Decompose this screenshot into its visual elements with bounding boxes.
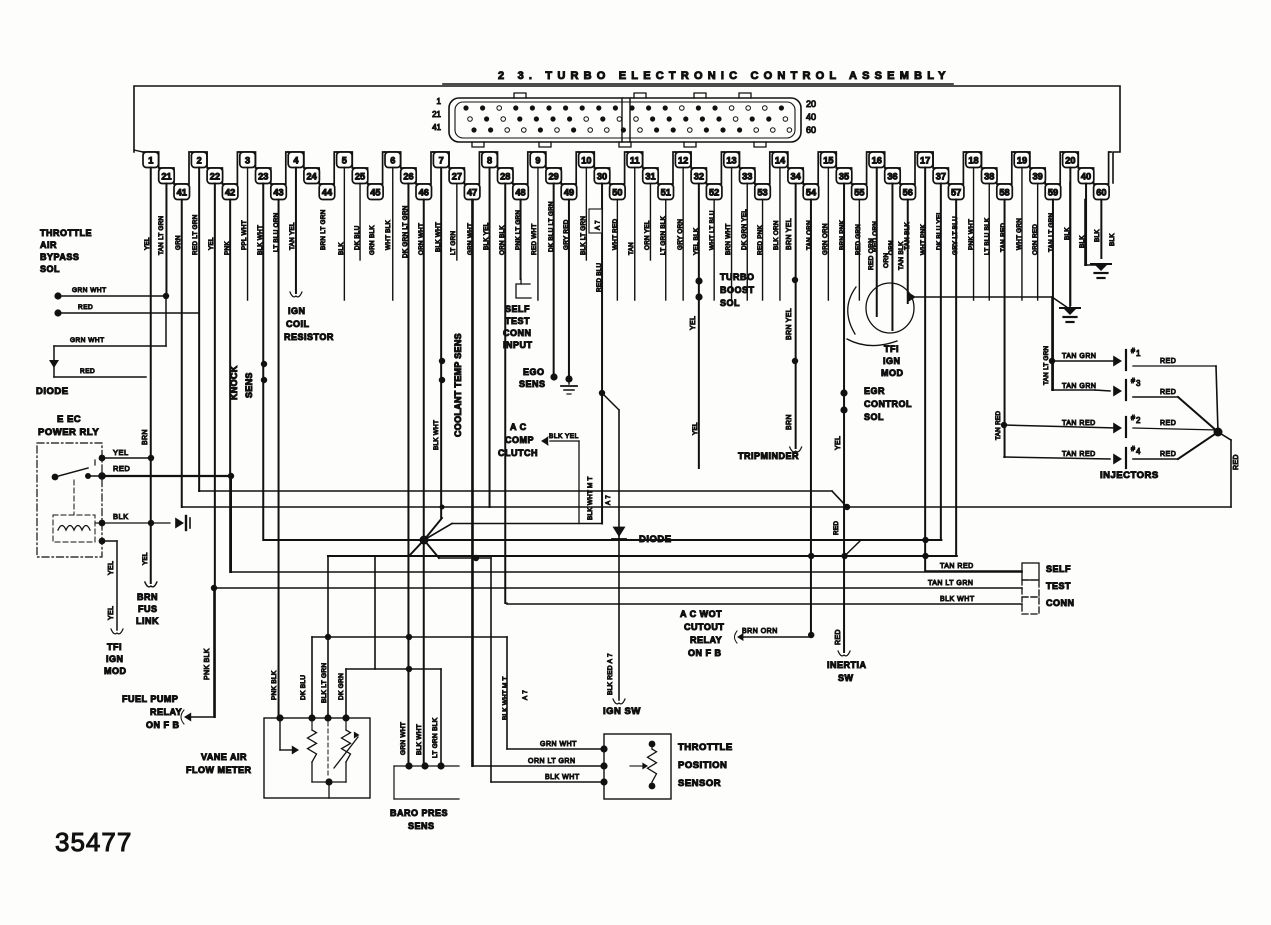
svg-text:YEL: YEL [692, 422, 699, 435]
svg-text:FLOW METER: FLOW METER [186, 765, 252, 775]
svg-text:TAN LT GRN: TAN LT GRN [1043, 345, 1050, 385]
svg-text:TAN RED: TAN RED [1062, 451, 1096, 458]
svg-text:BLK WHT: BLK WHT [435, 222, 442, 252]
svg-text:48: 48 [515, 188, 525, 198]
svg-text:2 3. TURBO ELECTRONIC CONTROL: 2 3. TURBO ELECTRONIC CONTROL ASSEMBLY [498, 70, 951, 82]
svg-text:1: 1 [437, 97, 442, 106]
svg-text:30: 30 [597, 172, 607, 182]
svg-text:TAN LT GRN: TAN LT GRN [1048, 212, 1055, 252]
svg-text:23: 23 [258, 172, 268, 182]
svg-text:BLK: BLK [1064, 227, 1071, 240]
svg-text:18: 18 [968, 156, 978, 166]
svg-text:DK GRN YEL: DK GRN YEL [741, 209, 748, 250]
svg-text:BLK RED A 7: BLK RED A 7 [607, 653, 614, 695]
svg-text:1: 1 [1136, 349, 1141, 358]
svg-text:IGN: IGN [288, 306, 306, 316]
svg-text:MOD: MOD [104, 666, 127, 676]
svg-text:24: 24 [307, 172, 318, 182]
svg-text:IGN: IGN [106, 654, 124, 664]
svg-text:BRN: BRN [786, 414, 793, 430]
svg-text:BLK: BLK [1079, 235, 1086, 248]
svg-text:WHT LT BLU: WHT LT BLU [709, 210, 716, 250]
svg-text:33: 33 [742, 172, 752, 182]
svg-text:BRN: BRN [137, 592, 158, 602]
svg-text:20: 20 [1065, 156, 1075, 166]
svg-text:A 7: A 7 [595, 220, 602, 230]
svg-text:47: 47 [467, 188, 477, 198]
svg-text:ON F B: ON F B [688, 648, 722, 658]
svg-text:GRY RED: GRY RED [563, 219, 570, 250]
svg-text:4: 4 [293, 156, 299, 166]
svg-text:41: 41 [177, 188, 187, 198]
svg-text:MOD: MOD [881, 368, 904, 378]
svg-text:TAN ORN: TAN ORN [806, 220, 813, 250]
svg-text:38: 38 [984, 172, 994, 182]
svg-text:45: 45 [370, 188, 380, 198]
svg-text:3: 3 [245, 156, 250, 166]
svg-text:THROTTLE: THROTTLE [678, 742, 733, 753]
svg-text:20: 20 [806, 99, 816, 109]
svg-text:YEL: YEL [108, 606, 115, 620]
svg-text:17: 17 [920, 156, 930, 166]
svg-text:RED: RED [78, 304, 93, 311]
svg-text:RED PNK: RED PNK [757, 224, 764, 255]
svg-text:SOL: SOL [40, 264, 60, 274]
svg-text:YEL: YEL [144, 237, 151, 250]
svg-text:EGR: EGR [864, 386, 885, 396]
svg-text:ON F B: ON F B [146, 720, 180, 730]
svg-text:22: 22 [210, 172, 220, 182]
svg-text:TRIPMINDER: TRIPMINDER [738, 451, 799, 461]
svg-text:ORN LT GRN: ORN LT GRN [528, 758, 576, 765]
svg-text:DK BLU: DK BLU [354, 225, 361, 250]
svg-text:21: 21 [432, 110, 441, 119]
svg-text:RED: RED [1160, 389, 1176, 396]
svg-text:9: 9 [535, 156, 540, 166]
svg-text:TAN GRN: TAN GRN [1062, 353, 1096, 360]
svg-text:PNK WHT: PNK WHT [968, 219, 975, 250]
svg-text:EGO: EGO [523, 367, 545, 377]
svg-text:BLK YEL: BLK YEL [483, 222, 490, 250]
svg-text:CUTOUT: CUTOUT [684, 622, 724, 632]
svg-text:IGN SW: IGN SW [603, 706, 641, 717]
svg-text:TAN YEL: TAN YEL [289, 222, 296, 250]
svg-text:25: 25 [355, 172, 365, 182]
svg-text:GRY ORN: GRY ORN [677, 219, 684, 250]
svg-text:GRN WHT: GRN WHT [72, 287, 107, 294]
svg-text:CONTROL: CONTROL [864, 399, 912, 409]
svg-text:BLK: BLK [338, 242, 345, 255]
svg-text:37: 37 [936, 172, 946, 182]
svg-text:SOL: SOL [720, 298, 740, 308]
svg-text:TEST: TEST [1046, 581, 1071, 591]
svg-text:WHT BLK: WHT BLK [385, 220, 392, 250]
svg-text:35: 35 [839, 172, 849, 182]
svg-text:BLK: BLK [113, 512, 129, 521]
svg-text:BLK LT GRN: BLK LT GRN [321, 663, 328, 703]
svg-text:#: # [1131, 446, 1135, 453]
svg-text:FUS: FUS [138, 604, 158, 614]
svg-text:44: 44 [322, 188, 333, 198]
svg-text:TAN RED: TAN RED [1000, 223, 1007, 252]
svg-text:YEL BLK: YEL BLK [693, 227, 700, 255]
svg-text:PNK LT GRN: PNK LT GRN [515, 210, 522, 250]
svg-text:GRN WHT: GRN WHT [467, 223, 474, 255]
svg-text:RED ORN: RED ORN [872, 221, 879, 252]
svg-text:#: # [1131, 415, 1135, 422]
svg-text:RED GRN: RED GRN [855, 224, 862, 255]
svg-text:RED: RED [1160, 358, 1176, 365]
svg-text:13: 13 [726, 156, 736, 166]
svg-text:RED LT GRN: RED LT GRN [192, 214, 199, 255]
svg-text:POSITION: POSITION [678, 760, 727, 771]
svg-text:THROTTLE: THROTTLE [40, 228, 92, 238]
svg-text:7: 7 [439, 156, 444, 166]
svg-text:IGN: IGN [883, 356, 901, 366]
svg-text:TAN LT GRN: TAN LT GRN [928, 580, 973, 587]
svg-text:4: 4 [1136, 447, 1141, 456]
svg-text:GRN WHT: GRN WHT [400, 722, 407, 755]
svg-text:BLK: BLK [1094, 229, 1101, 242]
svg-text:26: 26 [403, 172, 413, 182]
svg-text:LT BLU ORN: LT BLU ORN [273, 212, 280, 252]
svg-text:59: 59 [1048, 188, 1058, 198]
svg-text:27: 27 [452, 172, 462, 182]
svg-text:RED BLU: RED BLU [596, 262, 603, 292]
svg-text:2: 2 [1136, 416, 1141, 425]
svg-text:ORN RED: ORN RED [1032, 224, 1039, 255]
svg-text:TFI: TFI [107, 642, 122, 652]
svg-text:40: 40 [806, 112, 816, 122]
svg-text:LINK: LINK [136, 616, 159, 626]
svg-text:YEL: YEL [690, 316, 697, 330]
svg-text:1: 1 [148, 156, 153, 166]
svg-text:RED: RED [80, 368, 95, 375]
svg-text:WHT PNK: WHT PNK [920, 223, 927, 255]
svg-text:DK GRN LT GRN: DK GRN LT GRN [402, 205, 409, 258]
svg-text:BLK WHT: BLK WHT [940, 596, 975, 603]
svg-text:TAN RED: TAN RED [995, 411, 1002, 440]
svg-text:#: # [1131, 348, 1135, 355]
svg-text:BOOST: BOOST [720, 285, 755, 295]
svg-text:21: 21 [161, 172, 171, 182]
svg-text:10: 10 [581, 156, 591, 166]
svg-text:COMP: COMP [505, 435, 534, 445]
svg-text:BRN YEL: BRN YEL [786, 308, 793, 340]
svg-text:LT GRN: LT GRN [450, 231, 457, 255]
svg-text:RED: RED [1160, 451, 1176, 458]
svg-text:ORN: ORN [888, 240, 895, 255]
svg-text:SENS: SENS [244, 372, 254, 398]
svg-text:54: 54 [806, 188, 817, 198]
svg-text:34: 34 [791, 172, 802, 182]
svg-text:39: 39 [1033, 172, 1043, 182]
svg-text:GRY LT BLU: GRY LT BLU [952, 216, 959, 255]
svg-text:WHT GRN: WHT GRN [1016, 218, 1023, 250]
svg-text:PNK BLK: PNK BLK [271, 670, 278, 700]
svg-text:LT BLU BLK: LT BLU BLK [984, 217, 991, 255]
svg-text:51: 51 [661, 188, 671, 198]
svg-text:CLUTCH: CLUTCH [498, 448, 538, 458]
svg-text:TFI: TFI [884, 344, 899, 354]
svg-text:PNK: PNK [224, 241, 231, 255]
svg-text:28: 28 [500, 172, 510, 182]
svg-text:VANE AIR: VANE AIR [201, 752, 247, 762]
svg-text:BLK WHT: BLK WHT [416, 724, 423, 755]
svg-text:31: 31 [645, 172, 655, 182]
svg-text:60: 60 [1096, 188, 1106, 198]
svg-text:11: 11 [630, 156, 640, 166]
svg-text:RESISTOR: RESISTOR [284, 332, 334, 342]
svg-text:BARO PRES: BARO PRES [390, 808, 448, 818]
svg-text:ORN YEL: ORN YEL [644, 220, 651, 250]
svg-text:YEL: YEL [113, 448, 129, 457]
svg-text:FUEL PUMP: FUEL PUMP [122, 694, 178, 704]
svg-text:GRN WHT: GRN WHT [540, 741, 577, 748]
svg-text:KNOCK: KNOCK [229, 365, 239, 400]
svg-text:SENSOR: SENSOR [678, 778, 721, 789]
svg-text:56: 56 [903, 188, 913, 198]
svg-text:YEL: YEL [108, 561, 115, 575]
svg-text:BRN YEL: BRN YEL [786, 218, 793, 250]
svg-text:42: 42 [225, 188, 235, 198]
svg-text:BLK YEL: BLK YEL [549, 433, 579, 440]
svg-text:TURBO: TURBO [720, 272, 755, 282]
svg-text:BLK LT GRN: BLK LT GRN [580, 216, 587, 255]
svg-text:INPUT: INPUT [503, 340, 533, 350]
svg-text:BLK WHT: BLK WHT [545, 774, 580, 781]
svg-text:COIL: COIL [286, 319, 310, 329]
svg-text:55: 55 [854, 188, 864, 198]
svg-text:BYPASS: BYPASS [40, 252, 79, 262]
svg-text:BLK WHT: BLK WHT [433, 420, 440, 450]
svg-text:RED: RED [835, 629, 842, 645]
svg-text:SELF: SELF [505, 304, 530, 314]
svg-text:BRN ORN: BRN ORN [742, 628, 778, 635]
svg-text:6: 6 [390, 156, 395, 166]
svg-text:CONN: CONN [503, 328, 532, 338]
svg-text:29: 29 [549, 172, 559, 182]
svg-text:12: 12 [678, 156, 688, 166]
svg-text:35477: 35477 [55, 827, 132, 857]
svg-text:YEL: YEL [142, 552, 149, 565]
svg-text:TAN GRN: TAN GRN [1062, 383, 1096, 390]
svg-text:40: 40 [1081, 172, 1091, 182]
svg-text:E EC: E EC [57, 414, 81, 425]
svg-text:YEL: YEL [835, 436, 842, 450]
svg-text:A 7: A 7 [605, 495, 612, 505]
svg-text:41: 41 [432, 123, 441, 132]
svg-text:BLK WHT M T: BLK WHT M T [587, 476, 594, 520]
svg-text:50: 50 [612, 188, 622, 198]
svg-text:BLK WHT M T: BLK WHT M T [502, 676, 509, 720]
svg-text:A 7: A 7 [522, 690, 529, 700]
svg-text:SOL: SOL [864, 412, 884, 422]
svg-text:RED: RED [1233, 454, 1240, 470]
svg-text:PNK BLK: PNK BLK [204, 648, 211, 680]
svg-text:ORN WHT: ORN WHT [418, 223, 425, 255]
svg-text:RED: RED [1160, 420, 1176, 427]
svg-text:46: 46 [419, 188, 429, 198]
svg-text:60: 60 [806, 125, 816, 135]
svg-text:PPL WHT: PPL WHT [241, 220, 248, 250]
svg-text:COOLANT TEMP SENS: COOLANT TEMP SENS [453, 333, 463, 437]
svg-text:TAN: TAN [628, 242, 635, 255]
svg-text:58: 58 [999, 188, 1009, 198]
svg-text:POWER RLY: POWER RLY [38, 427, 99, 438]
svg-text:RELAY: RELAY [150, 707, 182, 717]
svg-text:DK BLU LT GRN: DK BLU LT GRN [548, 201, 555, 252]
svg-text:BLK: BLK [1109, 233, 1116, 246]
svg-text:LT GRN BLK: LT GRN BLK [660, 215, 667, 255]
svg-text:LT GRN BLK: LT GRN BLK [432, 717, 439, 758]
svg-text:TAN RED: TAN RED [940, 563, 974, 570]
svg-text:BRN LT GRN: BRN LT GRN [320, 209, 327, 250]
svg-text:BRN PNK: BRN PNK [839, 219, 846, 250]
svg-text:RED: RED [833, 521, 840, 535]
svg-text:DK BLU YEL: DK BLU YEL [936, 211, 943, 250]
svg-text:52: 52 [709, 188, 719, 198]
svg-text:GRN WHT: GRN WHT [70, 337, 105, 344]
svg-text:DK BLU: DK BLU [300, 675, 307, 700]
svg-text:3: 3 [1136, 379, 1141, 388]
svg-text:53: 53 [757, 188, 767, 198]
svg-text:DIODE: DIODE [36, 386, 69, 397]
svg-text:SENS: SENS [519, 379, 546, 389]
svg-text:15: 15 [823, 156, 833, 166]
svg-text:BRN: BRN [142, 429, 149, 445]
svg-text:SENS: SENS [408, 821, 435, 831]
svg-text:2: 2 [197, 156, 202, 166]
svg-text:5: 5 [342, 156, 347, 166]
svg-text:43: 43 [273, 188, 283, 198]
svg-text:32: 32 [694, 172, 704, 182]
svg-text:A C WOT: A C WOT [680, 609, 722, 619]
svg-text:14: 14 [775, 156, 786, 166]
svg-text:TEST: TEST [505, 316, 530, 326]
svg-text:57: 57 [951, 188, 961, 198]
svg-text:SELF: SELF [1046, 564, 1071, 574]
svg-text:TAN BLK: TAN BLK [904, 222, 911, 250]
svg-text:SW: SW [838, 673, 854, 683]
svg-text:#: # [1131, 378, 1135, 385]
svg-text:GRN: GRN [175, 235, 182, 250]
svg-text:36: 36 [887, 172, 897, 182]
svg-text:RELAY: RELAY [690, 635, 722, 645]
svg-text:INERTIA: INERTIA [827, 660, 867, 670]
svg-text:BLK WHT: BLK WHT [257, 225, 264, 255]
svg-text:19: 19 [1017, 156, 1027, 166]
svg-text:BRN WHT: BRN WHT [725, 224, 732, 255]
svg-text:RED WHT: RED WHT [531, 224, 538, 255]
svg-text:49: 49 [564, 188, 574, 198]
svg-text:DIODE: DIODE [639, 534, 672, 545]
svg-text:GRN ORN: GRN ORN [822, 223, 829, 255]
svg-text:A C: A C [510, 422, 527, 432]
svg-text:WHT RED: WHT RED [612, 218, 619, 250]
svg-text:CONN: CONN [1046, 598, 1075, 608]
svg-text:GRN BLK: GRN BLK [369, 225, 376, 255]
svg-text:TAN LT GRN: TAN LT GRN [158, 215, 165, 255]
svg-text:DK GRN: DK GRN [338, 673, 345, 700]
svg-text:YEL: YEL [208, 237, 215, 250]
svg-text:RED: RED [113, 464, 130, 473]
svg-text:8: 8 [487, 156, 492, 166]
svg-text:16: 16 [872, 156, 882, 166]
svg-text:INJECTORS: INJECTORS [1100, 470, 1159, 481]
svg-text:BLK ORN: BLK ORN [773, 220, 780, 250]
svg-text:ORN BLK: ORN BLK [499, 225, 506, 255]
svg-text:AIR: AIR [40, 240, 57, 250]
